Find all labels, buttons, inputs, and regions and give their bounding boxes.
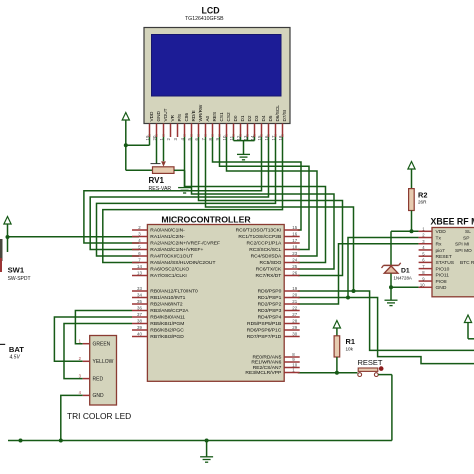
svg-text:13: 13 [243, 135, 248, 140]
svg-text:11: 11 [229, 135, 234, 140]
svg-text:RB5/KBI1/PGM: RB5/KBI1/PGM [150, 321, 184, 327]
svg-text:SW-SPDT: SW-SPDT [8, 276, 31, 282]
svg-text:GREEN: GREEN [93, 341, 111, 347]
svg-text:VDD: VDD [149, 111, 154, 122]
svg-text:RC4/SDI/SDA: RC4/SDI/SDA [251, 254, 282, 260]
svg-text:RD1/PSP1: RD1/PSP1 [258, 295, 282, 301]
svg-text:10: 10 [222, 135, 227, 140]
svg-text:C86: C86 [184, 113, 189, 122]
svg-text:SPI MI: SPI MI [455, 242, 469, 248]
svg-text:RD/E: RD/E [191, 110, 196, 121]
svg-text:RB4/KBI0/AN11: RB4/KBI0/AN11 [150, 315, 185, 321]
svg-text:RD4/PSP4: RD4/PSP4 [258, 315, 282, 321]
svg-text:YELLOW: YELLOW [93, 359, 114, 365]
svg-text:RE1/WR/AN6: RE1/WR/AN6 [251, 360, 281, 366]
svg-text:26R: 26R [418, 200, 427, 205]
svg-text:38: 38 [137, 319, 142, 324]
svg-text:VOUT: VOUT [163, 108, 168, 121]
svg-text:RB6/KBI2/PGC: RB6/KBI2/PGC [150, 328, 184, 334]
svg-text:24: 24 [292, 258, 297, 263]
svg-text:RED: RED [93, 376, 104, 382]
svg-text:RC1/T1OSI/CCP2B: RC1/T1OSI/CCP2B [238, 234, 281, 240]
svg-text:D0: D0 [233, 115, 238, 121]
svg-text:BAT: BAT [9, 345, 24, 354]
svg-text:19: 19 [145, 135, 150, 140]
svg-text:RD5/PSP5/P1B: RD5/PSP5/P1B [247, 321, 281, 327]
svg-text:D5: D5 [268, 115, 273, 121]
svg-text:21: 21 [292, 299, 297, 304]
svg-text:25: 25 [292, 264, 297, 269]
svg-text:RC6/TX/CK: RC6/TX/CK [256, 267, 282, 273]
svg-text:14: 14 [137, 264, 142, 269]
svg-text:40: 40 [137, 332, 142, 337]
svg-text:CS2: CS2 [226, 112, 231, 122]
svg-text:RA1/AN1/C2IN-: RA1/AN1/C2IN- [150, 234, 185, 240]
svg-text:35: 35 [137, 299, 142, 304]
svg-text:D1: D1 [401, 267, 410, 274]
svg-text:34: 34 [137, 293, 142, 298]
svg-text:1N4728A: 1N4728A [394, 275, 412, 280]
svg-text:26: 26 [292, 271, 297, 276]
svg-text:RC3/SCK/SCL: RC3/SCK/SCL [249, 247, 281, 253]
svg-text:23: 23 [292, 251, 297, 256]
svg-text:22: 22 [292, 306, 297, 311]
svg-text:D3: D3 [254, 115, 259, 121]
svg-text:RD6/PSP6/P1C: RD6/PSP6/P1C [247, 328, 282, 334]
svg-text:19: 19 [292, 286, 297, 291]
svg-text:RD0/PSP0: RD0/PSP0 [258, 289, 282, 295]
svg-text:PIO8: PIO8 [436, 279, 447, 285]
svg-text:20: 20 [292, 293, 297, 298]
svg-text:XBEE RF MODULE: XBEE RF MODULE [431, 217, 474, 227]
svg-text:RA0/AN0/C1IN-: RA0/AN0/C1IN- [150, 228, 185, 234]
svg-text:WR/RW: WR/RW [198, 104, 203, 121]
svg-text:RV1: RV1 [149, 176, 165, 185]
svg-text:SL: SL [465, 229, 471, 235]
svg-text:P/S: P/S [177, 114, 182, 122]
svg-text:pio7: pio7 [436, 248, 446, 254]
svg-text:SW1: SW1 [8, 266, 25, 275]
svg-text:16: 16 [264, 135, 269, 140]
svg-text:RA6/OSC2/CLKO: RA6/OSC2/CLKO [150, 267, 189, 273]
svg-text:Rx: Rx [436, 242, 443, 248]
svg-text:R2: R2 [418, 190, 427, 199]
svg-text:37: 37 [137, 312, 142, 317]
svg-text:GND: GND [436, 285, 447, 291]
svg-text:RA3/AN3/C1IN+/VREF+: RA3/AN3/C1IN+/VREF+ [150, 247, 203, 253]
svg-text:TRI COLOR LED: TRI COLOR LED [67, 411, 131, 421]
svg-text:RD7/PSP7/P1D: RD7/PSP7/P1D [247, 334, 282, 340]
svg-text:RB0/AN12/FLT0/INT0: RB0/AN12/FLT0/INT0 [150, 289, 198, 295]
svg-text:13: 13 [137, 271, 142, 276]
svg-text:D1: D1 [240, 115, 245, 121]
svg-text:RB2/AN8/INT2: RB2/AN8/INT2 [150, 302, 183, 308]
svg-text:MICROCONTROLLER: MICROCONTROLLER [161, 214, 251, 224]
svg-text:28: 28 [292, 319, 297, 324]
svg-text:A0: A0 [205, 115, 210, 121]
svg-text:27: 27 [292, 312, 297, 317]
svg-text:D2: D2 [247, 115, 252, 121]
svg-text:20: 20 [152, 135, 157, 140]
svg-text:PIO10: PIO10 [436, 266, 450, 272]
svg-text:4.5V: 4.5V [10, 355, 21, 361]
svg-text:12: 12 [236, 135, 241, 140]
svg-text:RD3/PSP3: RD3/PSP3 [258, 308, 282, 314]
svg-text:RA5/AN4/SS/HLVDIN/C2OUT: RA5/AN4/SS/HLVDIN/C2OUT [150, 260, 215, 266]
svg-text:29: 29 [292, 325, 297, 330]
svg-text:RE3/MCLR/VPP: RE3/MCLR/VPP [245, 370, 281, 376]
svg-text:30: 30 [292, 332, 297, 337]
svg-text:RA4/T0CKI/C1OUT: RA4/T0CKI/C1OUT [150, 254, 193, 260]
svg-text:RES: RES [212, 112, 217, 122]
svg-text:RB3/AN9/CCP2A: RB3/AN9/CCP2A [150, 308, 189, 314]
svg-text:D7/SI: D7/SI [282, 110, 287, 122]
svg-text:D4: D4 [261, 115, 266, 121]
svg-text:VDD: VDD [436, 229, 447, 235]
svg-text:10: 10 [420, 282, 425, 287]
svg-text:RB1/AN10/INT1: RB1/AN10/INT1 [150, 295, 185, 301]
svg-text:RC2/CCP1/P1A: RC2/CCP1/P1A [247, 241, 283, 247]
svg-text:RESET: RESET [358, 358, 383, 367]
svg-text:RESET: RESET [436, 254, 452, 260]
svg-text:10k: 10k [346, 347, 354, 352]
svg-text:RA2/AN2/C2IN+/VREF-/CVREF: RA2/AN2/C2IN+/VREF-/CVREF [150, 241, 220, 247]
svg-text:RA7/OSC1/CLKI: RA7/OSC1/CLKI [150, 273, 186, 279]
svg-text:17: 17 [292, 238, 297, 243]
svg-text:STATUS: STATUS [436, 260, 455, 266]
svg-text:15: 15 [257, 135, 262, 140]
svg-text:17: 17 [271, 135, 276, 140]
svg-text:15: 15 [292, 225, 297, 230]
svg-text:RC5/SDO: RC5/SDO [260, 260, 282, 266]
svg-text:RB7/KBI3/PGD: RB7/KBI3/PGD [150, 334, 184, 340]
svg-text:D6/SCL: D6/SCL [275, 105, 280, 122]
svg-text:BTC R: BTC R [460, 260, 474, 266]
svg-text:39: 39 [137, 325, 142, 330]
svg-text:CS1: CS1 [219, 112, 224, 122]
svg-text:33: 33 [137, 286, 142, 291]
svg-text:RD2/PSP2: RD2/PSP2 [258, 302, 282, 308]
svg-text:R1: R1 [346, 337, 355, 346]
svg-text:SPI MO: SPI MO [455, 248, 472, 254]
svg-text:RC7/RX/DT: RC7/RX/DT [255, 273, 281, 279]
svg-text:LCD: LCD [202, 6, 220, 16]
svg-text:36: 36 [137, 306, 142, 311]
svg-text:TG126410GFSB: TG126410GFSB [185, 16, 224, 22]
svg-text:VR: VR [170, 114, 175, 121]
svg-text:GND: GND [156, 110, 161, 121]
svg-text:18: 18 [278, 135, 283, 140]
svg-text:Tx: Tx [436, 235, 442, 241]
svg-text:16: 16 [292, 232, 297, 237]
svg-text:SP: SP [463, 235, 469, 241]
svg-text:RC0/T1OSO/T13CKI: RC0/T1OSO/T13CKI [236, 228, 282, 234]
svg-text:14: 14 [250, 135, 255, 140]
svg-text:GND: GND [93, 393, 105, 399]
svg-text:PIO11: PIO11 [436, 273, 450, 279]
svg-text:18: 18 [292, 245, 297, 250]
